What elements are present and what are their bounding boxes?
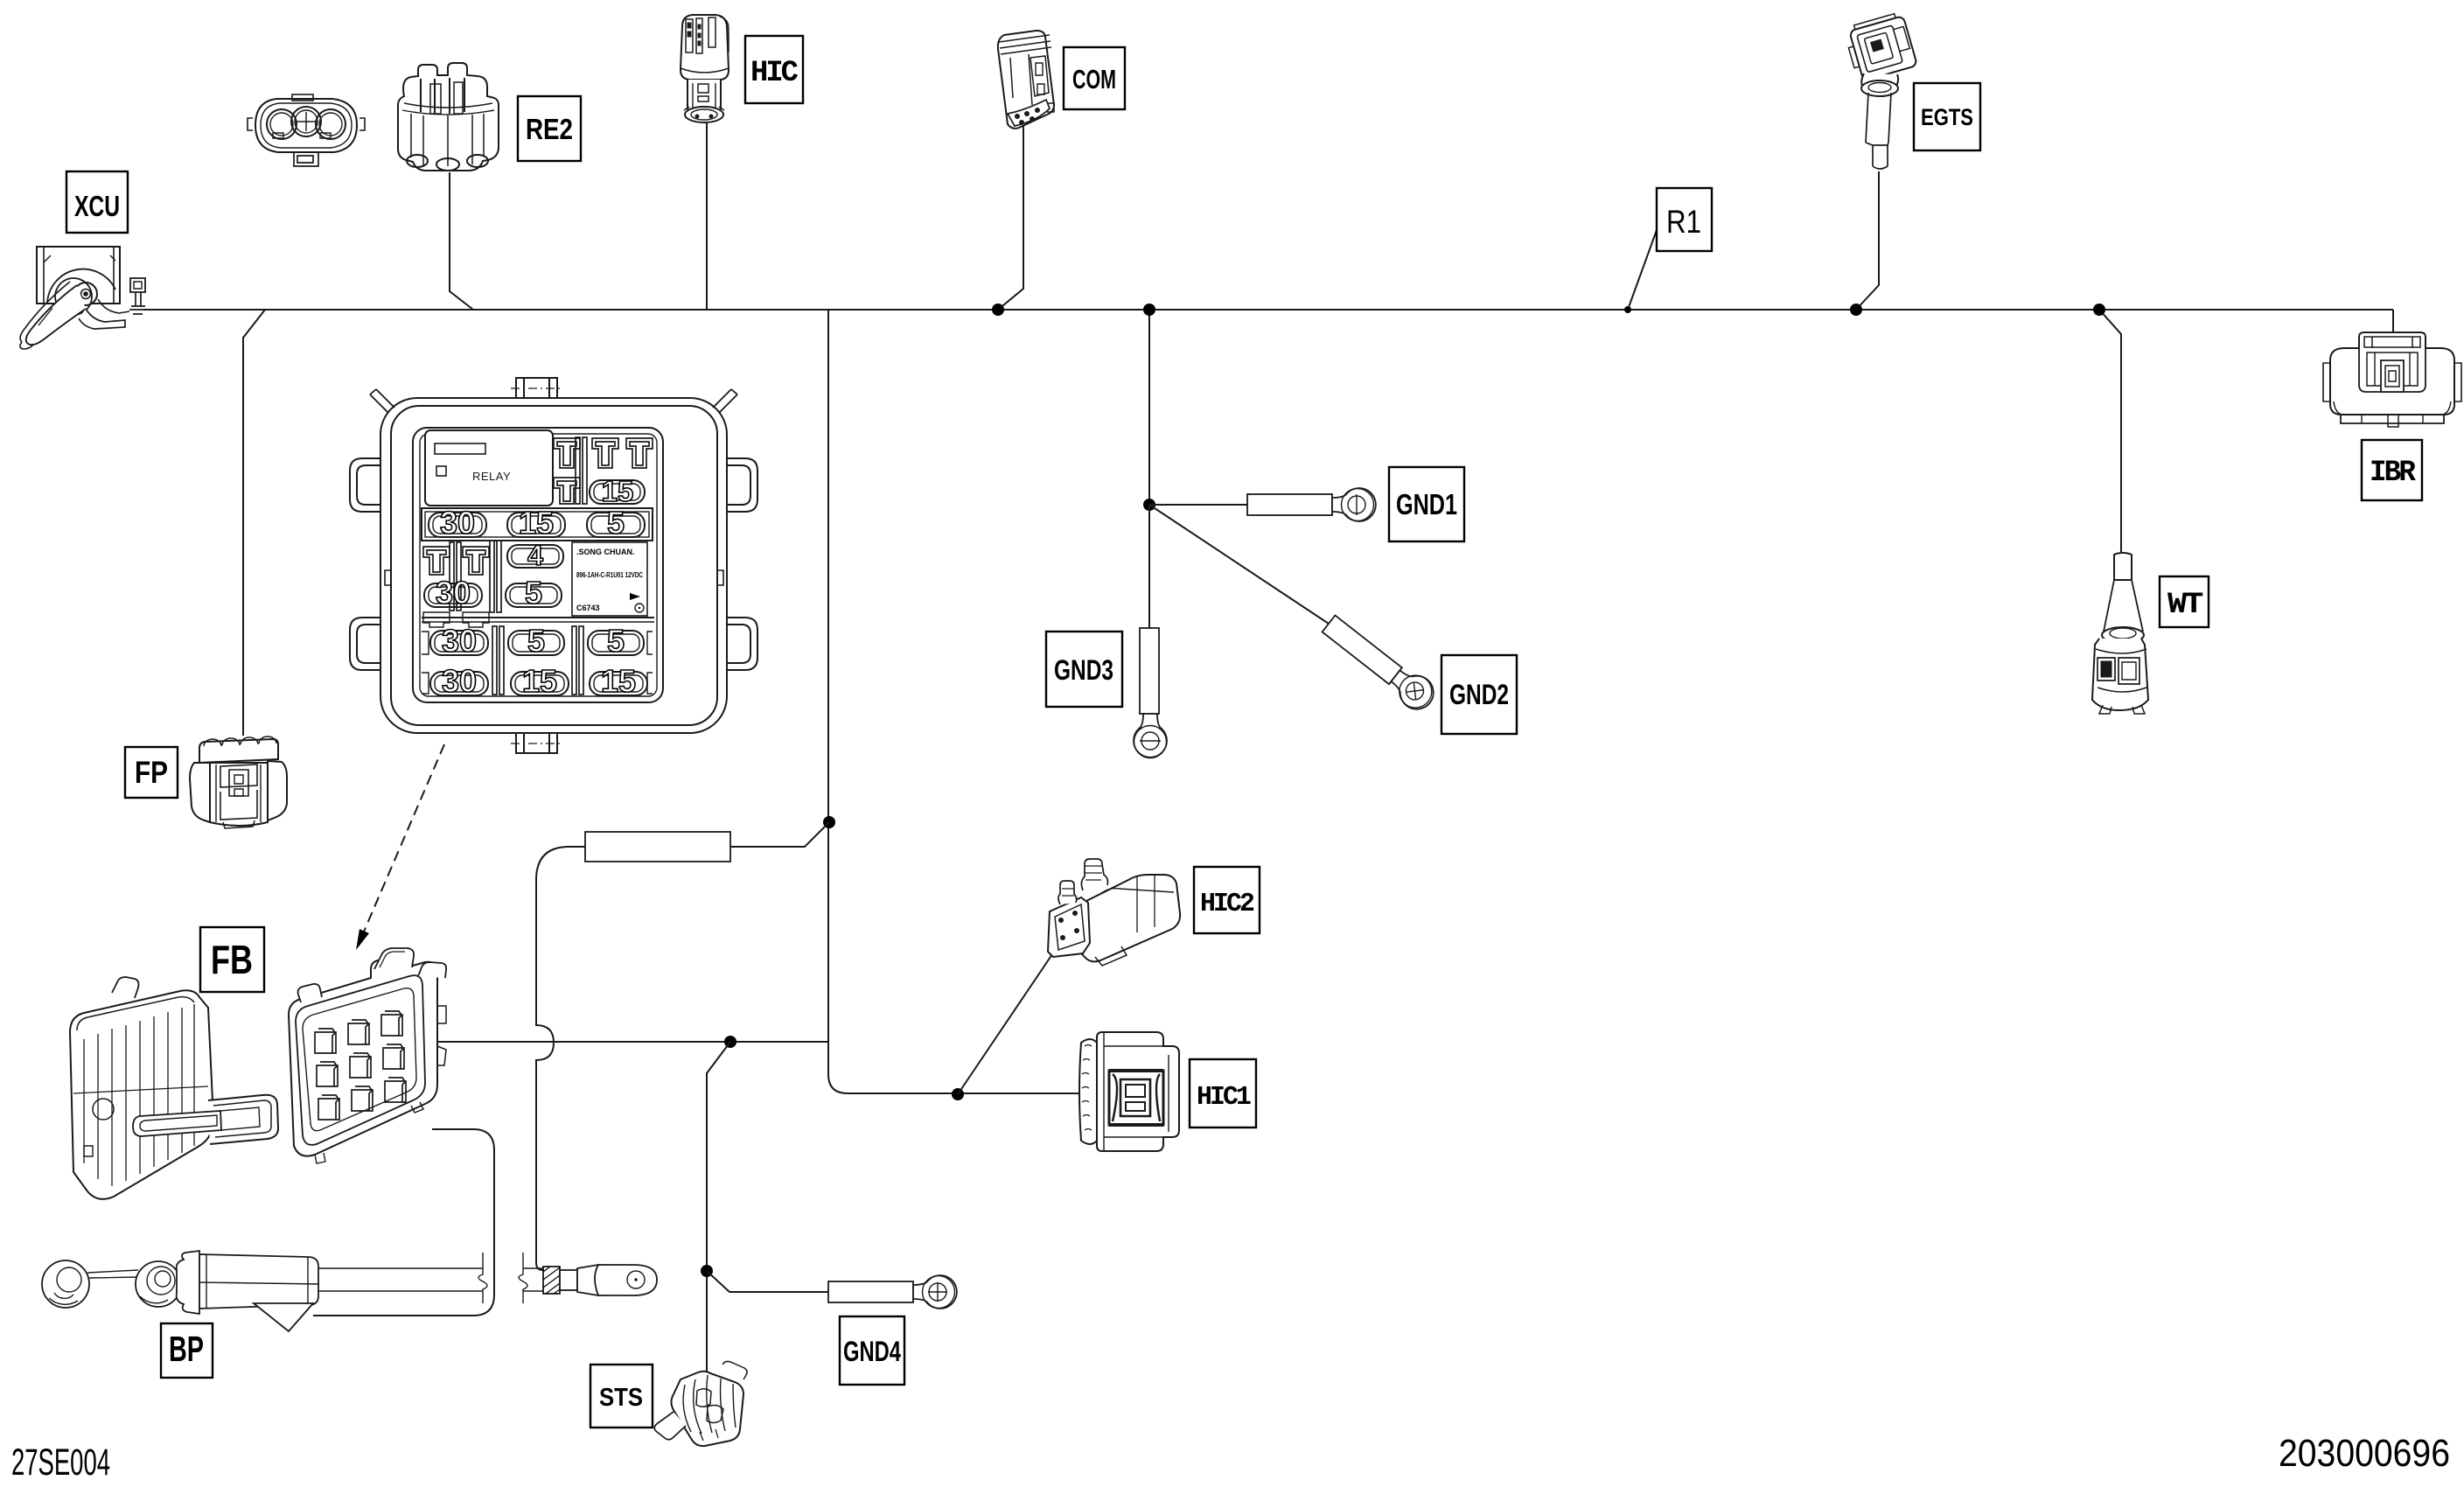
- fuse box bottom tab: [516, 733, 557, 753]
- FB right top tabs: [374, 948, 414, 969]
- connector FB (mating pair): [70, 948, 446, 1199]
- svg-text:EGTS: EGTS: [1921, 104, 1973, 130]
- fuse box left wing upper: [350, 458, 381, 512]
- wire center drop x947: [828, 310, 1079, 1093]
- fuse 5 mid: [506, 575, 562, 611]
- svg-text:R1: R1: [1666, 204, 1701, 240]
- svg-text:FB: FB: [211, 937, 253, 982]
- svg-text:15: 15: [601, 663, 636, 699]
- svg-text:BP: BP: [169, 1329, 204, 1369]
- wire splice left lead with crossover hop: [536, 847, 585, 1270]
- connector IBR: [2323, 332, 2461, 427]
- label RE2: [518, 96, 581, 161]
- wire GND4 lead: [707, 1271, 828, 1292]
- XCU latch area right: [98, 299, 129, 313]
- svg-text:30: 30: [440, 505, 475, 541]
- FB terminals 3x3: [315, 1011, 406, 1120]
- fuse 15 top: [590, 475, 645, 507]
- section divider: [422, 617, 654, 618]
- FB right housing: [289, 953, 437, 1156]
- fuse 30 botB: [430, 663, 488, 699]
- wire GND drop: [1148, 310, 1150, 505]
- BP lug crimp: [543, 1265, 657, 1295]
- label STS: [590, 1365, 653, 1428]
- label IBR: [2362, 440, 2422, 500]
- FB latch arm: [208, 1095, 278, 1144]
- wire main bus: [143, 309, 2393, 311]
- wire EGTS branch: [1856, 171, 1879, 310]
- relay part label: [572, 542, 647, 616]
- connector XCU: [20, 247, 147, 349]
- BP ring 2: [136, 1261, 181, 1307]
- connector WT: [2092, 553, 2148, 714]
- svg-text:FP: FP: [135, 756, 168, 790]
- svg-text:15: 15: [519, 505, 554, 541]
- fuse 30 band: [429, 505, 486, 541]
- svg-text:5: 5: [607, 623, 625, 659]
- svg-text:C6743: C6743: [576, 604, 600, 612]
- XCU lever: [55, 278, 92, 315]
- svg-text:30: 30: [442, 623, 477, 659]
- BP bracket: [177, 1251, 199, 1314]
- fuse box inner panel: [413, 428, 663, 702]
- svg-text:5: 5: [607, 505, 625, 541]
- wire GND2 lead: [1149, 505, 1329, 624]
- svg-text:WT: WT: [2167, 589, 2203, 622]
- node EGTS junction: [1850, 304, 1862, 316]
- svg-text:COM: COM: [1072, 64, 1116, 94]
- label WT: [2160, 576, 2209, 627]
- label GND3: [1046, 632, 1122, 707]
- svg-text:GND1: GND1: [1396, 488, 1457, 520]
- connector STS: [654, 1361, 747, 1446]
- svg-text:GND2: GND2: [1449, 679, 1509, 710]
- svg-text:HIC2: HIC2: [1200, 889, 1253, 919]
- fuse box corner pin top-right: [713, 389, 737, 413]
- fuse box left wing lower: [350, 618, 381, 670]
- connector FP: [190, 737, 287, 828]
- terminal sockets top right: [554, 437, 653, 504]
- connector RE2: [398, 63, 499, 171]
- BP battery cable: [318, 1253, 543, 1303]
- label FB: [200, 927, 264, 992]
- fuse box right stub: [717, 570, 723, 585]
- mid row sockets: [423, 541, 501, 627]
- wire GND1 lead: [1149, 504, 1247, 506]
- node HIC1 junction: [952, 1088, 964, 1100]
- GND4 ring terminal: [828, 1275, 957, 1309]
- BP link: [87, 1270, 138, 1273]
- XCU pigtail terminal: [130, 278, 145, 292]
- fuse box outer shell: [380, 398, 727, 733]
- label HIC2: [1194, 867, 1260, 933]
- BP assembly: [42, 1251, 318, 1331]
- node GND mid junction: [1143, 499, 1155, 511]
- wire RE2 branch: [450, 172, 473, 310]
- fuse 15 botB2: [590, 663, 647, 699]
- node COM junction: [992, 304, 1004, 316]
- wire WT branch: [2099, 310, 2121, 552]
- label XCU: [66, 171, 128, 233]
- wire COM branch: [998, 122, 1023, 310]
- svg-text:30: 30: [436, 575, 471, 611]
- svg-text:.SONG CHUAN.: .SONG CHUAN.: [576, 548, 635, 556]
- fuse 15 botB: [511, 663, 569, 699]
- wire IBR drop: [2392, 310, 2394, 334]
- svg-text:GND3: GND3: [1054, 654, 1113, 686]
- BP cylinder: [199, 1254, 318, 1309]
- svg-text:XCU: XCU: [74, 190, 120, 222]
- svg-text:15: 15: [602, 475, 634, 507]
- svg-text:4: 4: [527, 540, 543, 571]
- fuse box top tab: [516, 378, 557, 398]
- label HIC: [745, 36, 803, 103]
- node GND top junction: [1143, 304, 1155, 316]
- svg-text:RE2: RE2: [526, 113, 573, 145]
- wire R1 leader: [1628, 230, 1657, 310]
- GND2 ring terminal: [1318, 611, 1440, 716]
- svg-text:GND4: GND4: [843, 1336, 901, 1367]
- fuse box right wing upper: [726, 458, 757, 512]
- wire HIC branch: [706, 122, 708, 310]
- svg-text:30: 30: [442, 663, 477, 699]
- fuse box corner pin top-left: [370, 389, 394, 413]
- fuse 4: [507, 540, 563, 571]
- svg-text:HIC: HIC: [750, 57, 799, 90]
- label FP: [125, 747, 178, 798]
- fuse 5 botA2: [588, 623, 644, 659]
- GND1 ring terminal: [1247, 488, 1376, 521]
- GND3 ring terminal: [1134, 628, 1167, 758]
- wire FP branch: [243, 310, 265, 736]
- label R1: [1657, 188, 1712, 251]
- label HIC1: [1190, 1059, 1256, 1127]
- connector EGTS: [1843, 11, 1917, 169]
- wire STS drop: [707, 1042, 730, 1372]
- connector RE1 (3-cavity round): [248, 94, 365, 166]
- svg-text:STS: STS: [599, 1384, 643, 1412]
- node GND4 junction: [701, 1265, 713, 1277]
- fuse box right wing lower: [726, 618, 757, 670]
- relay cavity: [425, 430, 553, 506]
- BP ring 1: [42, 1260, 89, 1308]
- fuse 30 mid: [424, 575, 482, 611]
- fuse box leader arrow: [356, 744, 444, 950]
- svg-text:HIC1: HIC1: [1197, 1082, 1251, 1113]
- label EGTS: [1914, 83, 1980, 150]
- HIC2 top stubs: [1081, 859, 1107, 890]
- wire FB lower to BP: [313, 1129, 494, 1316]
- svg-text:IBR: IBR: [2370, 457, 2416, 490]
- fuse box left stub: [385, 570, 391, 585]
- label BP: [161, 1323, 213, 1378]
- connector HIC2: [1048, 859, 1180, 966]
- node splice junction top: [823, 816, 835, 828]
- fuse box: [350, 378, 757, 753]
- svg-text:27SE004: 27SE004: [11, 1442, 110, 1484]
- svg-text:203000696: 203000696: [2279, 1432, 2450, 1475]
- FB left housing: [70, 990, 213, 1199]
- svg-text:5: 5: [525, 575, 542, 611]
- wire FB to center at y1193: [437, 1041, 828, 1043]
- connector HIC: [681, 15, 729, 122]
- HIC2 front face: [1048, 897, 1090, 957]
- node STS junction: [724, 1036, 736, 1048]
- BP triangle flag: [254, 1303, 313, 1331]
- svg-text:RELAY: RELAY: [472, 470, 511, 483]
- HIC1 latch window: [1109, 1071, 1163, 1125]
- fuse 5 band: [587, 505, 645, 541]
- svg-text:896-1AH-C-R1U01 12VDC: 896-1AH-C-R1U01 12VDC: [576, 571, 643, 579]
- connector COM: [998, 31, 1054, 129]
- fuse 30 botA: [430, 623, 488, 659]
- inline splice SP1: [585, 832, 730, 862]
- connector HIC1: [1079, 1032, 1179, 1151]
- svg-text:5: 5: [527, 623, 545, 659]
- fuse 5 botA: [508, 623, 564, 659]
- bottom clips: [422, 626, 653, 695]
- label GND2: [1441, 655, 1517, 734]
- fuse band: [422, 508, 653, 541]
- svg-text:15: 15: [522, 663, 557, 699]
- wire splice right lead: [730, 822, 829, 847]
- wire GND3 lead: [1148, 505, 1150, 628]
- node WT junction: [2093, 304, 2105, 316]
- label GND1: [1389, 467, 1464, 541]
- label GND4: [840, 1316, 904, 1385]
- label COM: [1064, 47, 1125, 109]
- wire HIC2 leader: [958, 952, 1054, 1094]
- fuse 15 band: [507, 505, 565, 541]
